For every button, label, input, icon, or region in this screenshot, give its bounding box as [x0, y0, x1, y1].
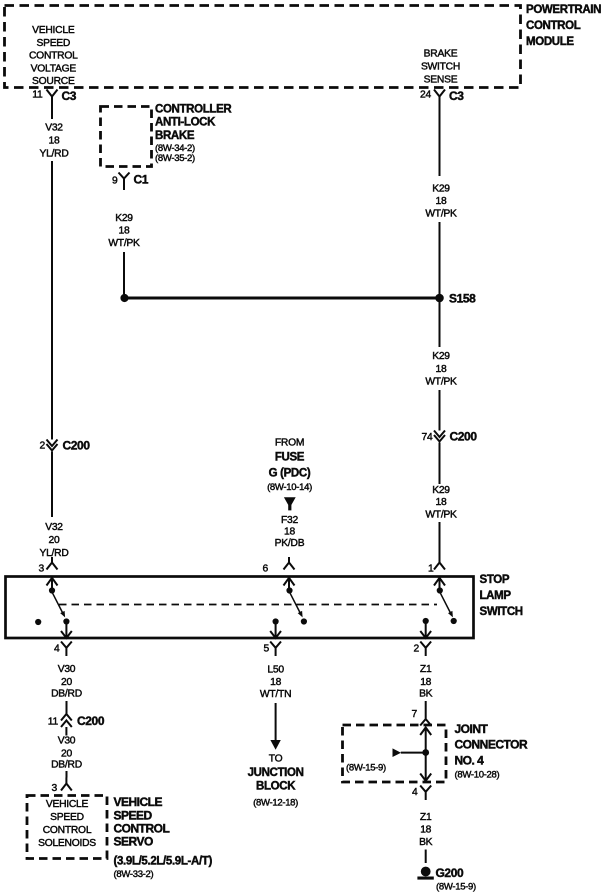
svg-text:V30: V30 [58, 664, 76, 675]
svg-text:BK: BK [419, 689, 433, 700]
switch 3 common dot [437, 587, 443, 593]
powertrain control module label [526, 4, 601, 48]
switch 1 spare terminal dot [35, 619, 41, 625]
switch 2 entry arrow (pin 6) [284, 578, 295, 588]
svg-text:(8W-35-2): (8W-35-2) [155, 153, 195, 164]
svg-text:FUSE: FUSE [275, 452, 305, 464]
svg-text:7: 7 [412, 709, 418, 720]
powertrain control module dashed box [5, 6, 521, 88]
switch 3 entry arrow (pin 1) [434, 578, 445, 588]
fuse feed arrow [284, 497, 296, 510]
svg-text:WT/TN: WT/TN [260, 689, 291, 700]
svg-text:VOLTAGE: VOLTAGE [31, 63, 77, 74]
svg-text:CONTROL: CONTROL [43, 825, 92, 836]
svg-text:LAMP: LAMP [480, 590, 512, 602]
switch 2 throw dot [301, 618, 307, 624]
wire pin4 to C200-11 [66, 701, 68, 714]
svg-text:FROM: FROM [275, 438, 304, 449]
dashed gang line [59, 604, 437, 606]
svg-text:18: 18 [420, 677, 431, 688]
svg-text:11: 11 [32, 90, 43, 101]
node: vehicle speed control voltage source [29, 25, 78, 87]
svg-text:CONNECTOR: CONNECTOR [455, 738, 528, 752]
switch 1 common dot [49, 587, 55, 593]
wire pin2 to joint connector [425, 701, 427, 712]
svg-text:YL/RD: YL/RD [39, 149, 68, 160]
svg-text:V32: V32 [45, 522, 63, 533]
svg-text:WT/PK: WT/PK [425, 377, 457, 388]
svg-text:K29: K29 [432, 485, 450, 496]
svg-text:BLOCK: BLOCK [256, 781, 296, 793]
wire label V30 20 DB/RD (lower) [51, 736, 82, 771]
svg-text:WT/PK: WT/PK [425, 209, 457, 220]
left wire V32 from C3-11 [51, 161, 53, 440]
svg-text:POWERTRAIN: POWERTRAIN [526, 4, 601, 16]
svg-text:18: 18 [270, 677, 281, 688]
joint connector pin 7 [412, 709, 432, 726]
svg-text:V30: V30 [58, 736, 76, 747]
wire to stop lamp switch pin 1 [439, 522, 441, 563]
svg-text:4: 4 [412, 787, 418, 798]
controller anti-lock brake label [155, 104, 232, 165]
splice wire to S158 [125, 297, 440, 300]
joint connector bus stub [346, 748, 426, 773]
svg-text:CONTROL: CONTROL [526, 20, 581, 32]
switch 1 entry arrow (pin 3) [47, 578, 58, 588]
stop lamp switch label [480, 574, 523, 618]
svg-text:G200: G200 [436, 866, 464, 880]
stop lamp switch pin 4 connector [54, 642, 72, 657]
switch 3 output dot (pin 2) [423, 618, 429, 624]
svg-text:SOLENOIDS: SOLENOIDS [38, 838, 96, 849]
svg-text:(8W-15-9): (8W-15-9) [346, 763, 386, 774]
svg-text:Z1: Z1 [420, 664, 432, 675]
connector C1 pin 9 [112, 173, 149, 191]
splice junction dot (left) [120, 294, 128, 302]
svg-text:(3.9L/5.2L/5.9L-A/T): (3.9L/5.2L/5.9L-A/T) [114, 856, 213, 868]
switch 2 common dot [286, 587, 292, 593]
stop lamp switch pin 5 connector [264, 642, 281, 657]
wire label K29 18 WT/PK (C1 branch) [108, 213, 140, 249]
svg-text:18: 18 [436, 497, 447, 508]
svg-text:SPEED: SPEED [36, 38, 70, 49]
svg-text:VEHICLE: VEHICLE [32, 25, 75, 36]
svg-text:F32: F32 [281, 515, 299, 526]
node: brake switch sense [421, 49, 460, 86]
wire C1 to splice [123, 252, 125, 294]
svg-text:18: 18 [420, 825, 431, 836]
svg-text:PK/DB: PK/DB [275, 538, 305, 549]
switch 3 exit arrow (pin 2) [420, 624, 431, 638]
wire label Z1 18 BK (lower) [419, 812, 433, 848]
wire label F32 18 PK/DB [275, 515, 305, 549]
joint connector entry arrow [420, 728, 431, 753]
joint connector pin 4 [412, 786, 431, 801]
wire to junction block with arrow [270, 703, 280, 750]
svg-text:(8W-15-9): (8W-15-9) [436, 882, 476, 893]
svg-text:(8W-10-14): (8W-10-14) [267, 482, 312, 493]
svg-text:WT/PK: WT/PK [108, 238, 140, 249]
svg-text:74: 74 [422, 432, 433, 443]
svg-text:C1: C1 [134, 173, 149, 187]
svg-text:K29: K29 [115, 213, 133, 224]
svg-text:SPEED: SPEED [50, 812, 84, 823]
svg-text:20: 20 [61, 677, 72, 688]
from fuse G label [267, 438, 312, 494]
connector C200 pin 2 [40, 439, 91, 453]
svg-text:11: 11 [48, 717, 59, 728]
switch 1 blade [53, 593, 66, 617]
svg-text:C3: C3 [62, 89, 77, 103]
svg-text:YL/RD: YL/RD [39, 548, 68, 559]
svg-text:C200: C200 [63, 439, 91, 453]
switch 3 throw dot [451, 618, 457, 624]
stop lamp switch pin 3 connector [39, 557, 58, 575]
svg-text:DB/RD: DB/RD [51, 689, 82, 700]
svg-text:18: 18 [49, 136, 60, 147]
svg-text:1: 1 [428, 564, 434, 575]
svg-text:SWITCH: SWITCH [421, 62, 460, 73]
svg-text:VEHICLE: VEHICLE [114, 795, 163, 809]
wire below C200-2 [51, 452, 53, 518]
connector C3 pin 11 [32, 89, 76, 119]
svg-text:18: 18 [436, 196, 447, 207]
svg-text:L50: L50 [267, 665, 284, 676]
svg-text:5: 5 [264, 644, 270, 655]
svg-text:18: 18 [119, 226, 130, 237]
svg-text:3: 3 [52, 783, 58, 794]
svg-text:CONTROL: CONTROL [114, 822, 170, 836]
svg-text:4: 4 [54, 644, 60, 655]
svg-text:BRAKE: BRAKE [155, 130, 195, 142]
svg-text:(8W-33-2): (8W-33-2) [114, 869, 154, 880]
svg-text:24: 24 [420, 90, 431, 101]
svg-text:C200: C200 [77, 714, 105, 728]
svg-text:Z1: Z1 [420, 812, 432, 823]
svg-text:MODULE: MODULE [526, 36, 574, 48]
svg-text:SPEED: SPEED [114, 809, 153, 823]
wire to ground [425, 850, 427, 864]
wire label K29 18 WT/PK (right lower) [425, 485, 457, 521]
svg-text:20: 20 [49, 535, 60, 546]
connector C200 pin 74 [422, 430, 478, 444]
svg-text:(8W-12-18): (8W-12-18) [253, 798, 298, 809]
joint connector no 4 dashed box [343, 725, 447, 782]
vehicle speed control solenoids dashed box [27, 796, 107, 859]
svg-text:JUNCTION: JUNCTION [248, 767, 304, 779]
wire label V32 18 YL/RD (upper left) [39, 123, 68, 160]
wire label Z1 18 BK (upper) [419, 664, 433, 700]
svg-text:TO: TO [269, 754, 283, 765]
svg-text:SENSE: SENSE [424, 75, 458, 86]
joint connector bus dot [422, 749, 429, 756]
svg-text:DB/RD: DB/RD [51, 760, 82, 771]
svg-text:K29: K29 [432, 351, 450, 362]
svg-text:BK: BK [419, 837, 433, 848]
svg-text:SWITCH: SWITCH [480, 606, 523, 618]
wire S158 down [439, 302, 441, 347]
svg-text:V32: V32 [45, 123, 63, 134]
splice S158 [435, 292, 476, 306]
wire label K29 18 WT/PK (right upper) [425, 184, 457, 220]
wire below C200-74 [439, 443, 441, 485]
joint connector no 4 label [455, 722, 528, 781]
vehicle speed control servo label [114, 795, 213, 880]
solenoids pin 3 connector [52, 778, 72, 795]
connector C3 pin 24 [420, 89, 464, 176]
stop lamp switch pin 2 connector [414, 642, 432, 657]
stop lamp switch box [6, 577, 474, 639]
svg-text:JOINT: JOINT [455, 722, 489, 736]
wire label K29 18 WT/PK (right middle) [425, 351, 457, 388]
svg-text:NO. 4: NO. 4 [455, 754, 485, 768]
wire label V32 20 YL/RD (lower left) [39, 522, 68, 559]
stop lamp switch pin 1 connector [428, 557, 445, 575]
svg-text:SOURCE: SOURCE [32, 76, 75, 87]
to junction block label [248, 754, 304, 809]
svg-text:SERVO: SERVO [114, 835, 153, 849]
svg-text:G (PDC): G (PDC) [269, 468, 311, 480]
svg-text:VEHICLE: VEHICLE [46, 799, 89, 810]
svg-text:2: 2 [414, 644, 420, 655]
svg-text:6: 6 [263, 564, 269, 575]
svg-text:3: 3 [39, 564, 45, 575]
svg-text:18: 18 [436, 364, 447, 375]
svg-text:C200: C200 [450, 430, 478, 444]
switch 1 throw dot (pin 4) [63, 618, 69, 624]
switch 2 output dot (pin 5) [273, 618, 279, 624]
stop lamp switch pin 6 connector [263, 557, 295, 575]
svg-text:CONTROL: CONTROL [29, 51, 78, 62]
svg-text:(8W-10-28): (8W-10-28) [455, 770, 500, 781]
controller anti-lock brake dashed box [101, 107, 152, 167]
svg-text:STOP: STOP [480, 574, 510, 586]
svg-text:9: 9 [112, 176, 118, 187]
svg-text:18: 18 [284, 527, 295, 538]
svg-text:WT/PK: WT/PK [425, 510, 457, 521]
svg-text:BRAKE: BRAKE [424, 49, 458, 60]
connector C200 pin 11 [48, 714, 105, 736]
svg-text:S158: S158 [449, 292, 476, 306]
ground G200 [417, 866, 476, 893]
wire to C200-74 [439, 390, 441, 431]
switch 2 blade [290, 593, 303, 617]
switch 3 blade [440, 593, 453, 617]
svg-text:2: 2 [40, 441, 46, 452]
wire C3-24 segment below label [439, 222, 441, 294]
vehicle speed control solenoids label [38, 799, 96, 849]
joint connector exit arrow [420, 753, 431, 781]
svg-text:K29: K29 [432, 184, 450, 195]
svg-text:C3: C3 [449, 89, 464, 103]
switch 2 exit arrow (pin 5) [270, 625, 281, 639]
switch 1 exit arrow (pin 4) [61, 625, 72, 639]
svg-text:20: 20 [61, 749, 72, 760]
wire to solenoids pin 3 [66, 771, 68, 778]
svg-text:ANTI-LOCK: ANTI-LOCK [155, 117, 216, 129]
wire label V30 20 DB/RD (upper) [51, 664, 82, 700]
wire label L50 18 WT/TN [260, 665, 291, 701]
svg-text:CONTROLLER: CONTROLLER [155, 104, 232, 116]
